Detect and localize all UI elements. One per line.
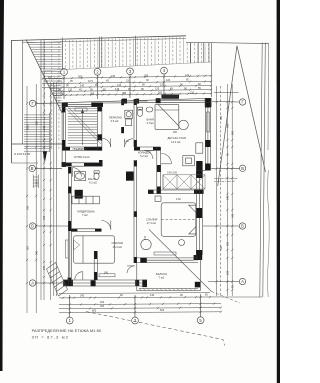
svg-text:ПРЕДВЕРИЕ: ПРЕДВЕРИЕ	[73, 148, 88, 151]
svg-text:В: В	[31, 166, 34, 171]
спальня-right bed	[161, 203, 196, 237]
bottom line of right parcel	[221, 296, 262, 298]
svg-text:2860: 2860	[26, 124, 29, 130]
svg-text:КОРИДОР: КОРИДОР	[138, 151, 151, 155]
dimension ticks	[26, 75, 233, 314]
wardrobe rects гардеробная	[72, 196, 100, 204]
short vertical right	[267, 43, 270, 150]
tread bottom line	[12, 143, 63, 145]
svg-text:7 м2: 7 м2	[82, 213, 88, 217]
svg-text:415: 415	[144, 235, 147, 240]
right wall upper blocks	[205, 98, 210, 108]
svg-text:ГАРДЕРОБНА: ГАРДЕРОБНА	[77, 209, 95, 213]
jog between right wall runs	[196, 170, 205, 172]
svg-text:400: 400	[227, 123, 230, 128]
solid verticals in band	[63, 36, 212, 97]
left wall lower blocks	[68, 167, 71, 174]
slope diagonal	[26, 40, 62, 114]
детска bed	[155, 104, 179, 129]
svg-text:140: 140	[150, 294, 155, 297]
svg-text:210: 210	[190, 91, 195, 94]
nightstand	[155, 196, 161, 201]
svg-text:А: А	[241, 279, 244, 284]
svg-text:3.7м2: 3.7м2	[147, 121, 155, 125]
баня top sink	[146, 107, 153, 112]
svg-text:345: 345	[220, 245, 223, 250]
svg-text:110: 110	[126, 79, 131, 82]
svg-text:БАНЯ: БАНЯ	[147, 117, 154, 121]
bedroom bottom wall run	[137, 257, 198, 259]
детска desk	[183, 156, 195, 166]
svg-text:120: 120	[166, 79, 171, 82]
svg-text:305: 305	[35, 120, 38, 125]
right wall upper run	[204, 98, 206, 171]
спальня-left bed	[74, 236, 115, 263]
svg-text:295: 295	[90, 92, 95, 95]
left wall lower run	[67, 167, 69, 286]
svg-text:403: 403	[100, 301, 105, 304]
top wall runs	[62, 98, 211, 102]
баня top toilet	[137, 109, 142, 116]
bath top wall	[62, 163, 72, 167]
radiators on walls	[66, 95, 210, 277]
svg-text:-0.10/Г13.60: -0.10/Г13.60	[14, 152, 31, 156]
bottom chains	[59, 293, 210, 294]
outer vertical	[11, 40, 13, 163]
corridor/детска wall x157 blocks	[157, 165, 161, 172]
balcony railing hatch	[139, 289, 196, 291]
shaft black (corridor)	[126, 172, 134, 181]
svg-text:чертежите По размери: чертежите По размери	[214, 178, 238, 180]
svg-text:ЗП = 87,3 м2: ЗП = 87,3 м2	[32, 335, 69, 340]
left chains	[26, 86, 28, 313]
wavy boundary	[268, 170, 270, 297]
svg-text:7 м2: 7 м2	[159, 275, 165, 279]
gable right side	[237, 46, 266, 172]
inner vertical	[22, 40, 24, 144]
interior wall x94 run	[93, 251, 95, 280]
stool right bedroom	[141, 239, 151, 249]
svg-text:РАЗПРЕДЕЛЕНИЕ НА ЕТАЖА М1:50: РАЗПРЕДЕЛЕНИЕ НА ЕТАЖА М1:50	[32, 328, 102, 333]
bubble 2	[94, 68, 101, 75]
top wall right section	[122, 99, 127, 104]
svg-text:1.90: 1.90	[124, 140, 129, 143]
top wall left section (stairwell)	[62, 103, 68, 107]
svg-text:10.5: 10.5	[88, 80, 93, 83]
break diagonal	[66, 109, 101, 145]
svg-text:300: 300	[26, 245, 29, 250]
перално washing machine	[125, 110, 133, 118]
svg-text:345: 345	[26, 205, 29, 210]
перално sink	[126, 119, 132, 126]
svg-text:120: 120	[68, 89, 73, 92]
balcony post	[195, 282, 201, 288]
wardrobe X band детска	[163, 175, 205, 189]
svg-text:565: 565	[35, 180, 38, 185]
bedroom bottom wall blocks	[140, 258, 147, 263]
svg-text:665: 665	[231, 130, 234, 135]
right double vertical	[260, 43, 262, 297]
svg-text:120: 120	[160, 84, 165, 87]
svg-text:3.40 3.05: 3.40 3.05	[167, 172, 178, 175]
svg-text:120: 120	[155, 88, 160, 91]
wall y229 run	[71, 228, 101, 230]
svg-text:АНТРЕ 4.9 м2: АНТРЕ 4.9 м2	[74, 156, 90, 159]
top chains	[42, 76, 211, 79]
dashed continuation	[212, 292, 241, 304]
svg-text:805: 805	[92, 310, 97, 313]
band top line	[12, 36, 187, 41]
svg-text:Б: Б	[31, 224, 34, 229]
stairwell right wall run	[97, 107, 99, 151]
bubble 1	[61, 69, 68, 76]
svg-text:14.2 м2: 14.2 м2	[171, 140, 181, 144]
corridor top wall run	[134, 146, 160, 148]
gable left side	[218, 46, 237, 186]
balcony outline	[136, 263, 138, 291]
right chains	[216, 86, 218, 296]
bottom-left wall run	[63, 279, 147, 281]
bubble 4	[161, 67, 168, 74]
svg-text:ДЕТСКА СТАЯ: ДЕТСКА СТАЯ	[168, 136, 186, 140]
stairwell right wall blocks	[97, 107, 102, 112]
interior wall x121	[121, 99, 124, 105]
wall thin double lines (windows etc.)	[62, 98, 211, 291]
wall y163 run	[62, 162, 102, 164]
interior wall x134 blocks	[134, 99, 137, 105]
svg-text:135: 135	[43, 265, 46, 270]
interior wall below stairs	[62, 147, 70, 151]
svg-text:Б: Б	[241, 224, 244, 229]
svg-text:340: 340	[35, 250, 38, 255]
svg-text:140: 140	[80, 84, 85, 87]
детска cabinet	[196, 143, 203, 153]
svg-text:345: 345	[43, 215, 46, 220]
svg-text:390: 390	[60, 93, 65, 96]
wall y147 run	[62, 146, 102, 148]
svg-text:СПАЛНЯ: СПАЛНЯ	[146, 218, 157, 222]
svg-text:4.2 м2: 4.2 м2	[89, 180, 97, 184]
svg-text:5.2 м2: 5.2 м2	[140, 154, 148, 158]
corridor top wall blocks	[134, 147, 140, 151]
svg-text:3.5 м2: 3.5 м2	[111, 119, 119, 123]
bubble 3	[127, 68, 134, 75]
svg-text:120: 120	[185, 74, 190, 77]
svg-text:360: 360	[220, 115, 223, 120]
left wall upper (stairwell) blocks	[62, 107, 65, 113]
wall y190 blocks	[148, 190, 154, 194]
shaft black (bath)	[75, 190, 83, 199]
svg-text:240: 240	[111, 75, 116, 78]
wall y190 run	[148, 189, 204, 191]
svg-text:603: 603	[160, 309, 165, 312]
inner dimension notes	[104, 131, 181, 275]
right wall lower run	[195, 171, 197, 261]
right scan edge bar	[277, 0, 280, 383]
interior wall x134 run	[133, 99, 135, 147]
long dashed boundary bottom	[86, 312, 225, 346]
svg-text:345: 345	[227, 195, 230, 200]
dashed verticals	[45, 37, 209, 150]
wardrobe/bedroom wall y229	[71, 229, 77, 232]
svg-text:420: 420	[100, 305, 105, 308]
svg-text:А: А	[31, 281, 34, 286]
interior wall x94 bottom	[94, 251, 98, 259]
svg-text:135: 135	[227, 270, 230, 275]
svg-text:от каталог с кат.1.60: от каталог с кат.1.60	[214, 181, 235, 183]
svg-text:240: 240	[104, 272, 109, 275]
svg-text:17.4 м2: 17.4 м2	[147, 221, 157, 225]
corridor wall x157 run	[156, 147, 158, 194]
left scan edge bar	[0, 0, 4, 371]
svg-text:305: 305	[144, 75, 149, 78]
svg-text:120: 120	[43, 125, 46, 130]
right wall step + lower blocks	[196, 161, 202, 178]
solid diagonal over balcony	[149, 230, 212, 292]
band bottom boundary	[45, 62, 211, 71]
svg-text:300: 300	[158, 92, 163, 95]
svg-text:305: 305	[78, 76, 83, 79]
bottom wall left blocks	[63, 280, 73, 286]
svg-text:10.5: 10.5	[57, 80, 62, 83]
neighbour top line	[186, 42, 269, 43]
svg-text:В: В	[241, 166, 244, 171]
left wall upper run	[61, 103, 63, 167]
svg-text:2.60: 2.60	[176, 198, 181, 201]
stems	[63, 75, 65, 99]
svg-text:545: 545	[231, 213, 234, 218]
svg-text:БАЛКОН: БАЛКОН	[156, 272, 167, 276]
stair treads	[24, 42, 62, 151]
svg-text:300: 300	[173, 131, 178, 134]
bottom-right corner block	[194, 255, 198, 260]
svg-text:БАНЯ: БАНЯ	[88, 177, 95, 181]
svg-text:141: 141	[117, 84, 122, 87]
elevation marker triangle	[43, 152, 47, 163]
svg-text:ПЕРАЛНО: ПЕРАЛНО	[109, 115, 122, 119]
svg-text:385: 385	[122, 92, 127, 95]
svg-text:140: 140	[115, 88, 120, 91]
svg-text:240: 240	[80, 295, 85, 298]
svg-text:СПАЛНЯ: СПАЛНЯ	[112, 241, 123, 245]
bath oval (баня 4.2)	[75, 173, 84, 179]
svg-text:300: 300	[227, 241, 230, 246]
center line with arrow	[82, 109, 84, 145]
toilet баня 4.2	[94, 173, 99, 180]
round table детска	[179, 120, 189, 130]
svg-text:15.4 м2: 15.4 м2	[113, 245, 123, 249]
